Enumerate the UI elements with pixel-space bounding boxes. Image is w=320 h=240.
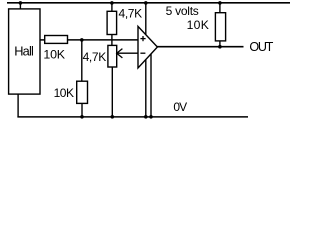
wire Hall output to resistor R2 <box>40 39 45 41</box>
wire 5V top rail <box>7 2 290 4</box>
wire op-amp ground pin 1 to 0V rail <box>145 59 147 117</box>
wire 5V down to R4 <box>219 3 221 13</box>
wire op-amp output to OUT <box>157 46 244 48</box>
svg-text:4,7K: 4,7K <box>83 50 107 64</box>
Hall sensor box <box>9 9 40 94</box>
wire pot bottom to 0V <box>111 67 113 117</box>
svg-text:0V: 0V <box>173 100 187 114</box>
junction dot V+ pin at 5V rail <box>144 1 148 5</box>
svg-text:4,7K: 4,7K <box>119 7 143 21</box>
wire R1 bottom through node to potentiometer top <box>111 35 113 46</box>
junction dot pin 2 at 0V rail <box>149 115 153 119</box>
wire op-amp V+ pin to 5V rail <box>145 3 147 35</box>
wire R3 bottom to 0V <box>81 103 83 117</box>
op-amp - input symbol <box>140 52 145 54</box>
junction dot pin 1 at 0V rail <box>144 115 148 119</box>
junction dot R3 at 0V rail <box>80 115 84 119</box>
resistor R1 4,7K <box>107 11 117 34</box>
wire 0V bottom rail <box>17 116 248 118</box>
junction dot pot at 0V rail <box>111 115 115 119</box>
junction dot R4 at 5V rail <box>218 1 222 5</box>
svg-text:5 volts: 5 volts <box>166 4 199 18</box>
wire Hall bottom pin to 0V <box>17 94 19 118</box>
pot wiper arrowhead <box>117 49 123 58</box>
svg-text:10K: 10K <box>54 86 74 100</box>
wire R4 bottom to output node <box>219 41 221 47</box>
resistor R4 10K pull-up <box>215 13 225 41</box>
junction dot on 5V rail above R1 <box>110 1 114 5</box>
potentiometer VR1 4,7K body <box>108 45 117 67</box>
node A junction dot <box>80 38 84 42</box>
wire node A down to R3 <box>81 40 83 82</box>
wire R2 to op-amp + input <box>68 39 139 41</box>
wire op-amp ground pin 2 to 0V rail <box>150 54 152 117</box>
junction dot output node <box>218 45 222 49</box>
op-amp + input symbol <box>140 38 145 40</box>
op-amp U1 triangle <box>138 26 157 68</box>
svg-text:10K: 10K <box>187 18 210 32</box>
resistor R3 10K vertical <box>77 81 88 103</box>
svg-text:Hall: Hall <box>14 43 33 58</box>
svg-text:OUT: OUT <box>249 40 273 54</box>
svg-text:10K: 10K <box>43 48 65 62</box>
wire pot wiper to op-amp - input <box>117 52 139 54</box>
resistor R2 10K horizontal <box>45 36 68 44</box>
node junction dot on 5V rail above Hall <box>19 1 23 5</box>
wire 5V down to R1 <box>111 3 113 12</box>
wire Hall top pin to 5V <box>19 3 21 9</box>
